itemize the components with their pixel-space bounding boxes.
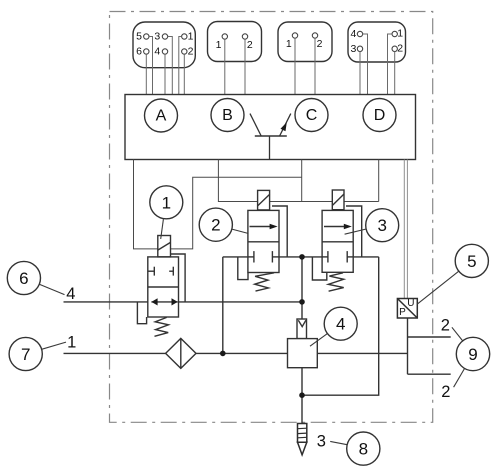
svg-text:2: 2 xyxy=(441,316,450,334)
svg-text:2: 2 xyxy=(317,38,323,50)
svg-text:1: 1 xyxy=(67,334,76,352)
svg-text:1: 1 xyxy=(162,193,171,212)
svg-text:3: 3 xyxy=(350,43,356,55)
svg-text:3: 3 xyxy=(377,216,386,235)
svg-text:8: 8 xyxy=(359,440,368,459)
svg-text:5: 5 xyxy=(467,252,476,271)
svg-text:6: 6 xyxy=(19,269,28,288)
svg-text:2: 2 xyxy=(397,42,403,54)
svg-text:1: 1 xyxy=(286,38,292,50)
svg-text:C: C xyxy=(306,107,318,124)
svg-text:9: 9 xyxy=(468,345,477,364)
svg-text:3: 3 xyxy=(317,433,326,451)
svg-text:2: 2 xyxy=(247,39,253,51)
svg-text:2: 2 xyxy=(211,216,220,235)
svg-text:P: P xyxy=(399,307,406,318)
svg-text:3: 3 xyxy=(154,31,160,43)
svg-text:D: D xyxy=(374,107,386,124)
svg-text:6: 6 xyxy=(136,46,142,58)
svg-text:U: U xyxy=(407,298,414,309)
svg-text:4: 4 xyxy=(154,46,160,58)
svg-text:7: 7 xyxy=(21,345,30,364)
svg-text:4: 4 xyxy=(336,315,345,334)
svg-text:1: 1 xyxy=(397,28,403,40)
svg-text:1: 1 xyxy=(216,39,222,51)
svg-text:A: A xyxy=(156,108,167,125)
svg-text:4: 4 xyxy=(66,285,75,303)
svg-text:5: 5 xyxy=(136,31,142,43)
svg-text:2: 2 xyxy=(441,383,450,401)
svg-text:4: 4 xyxy=(350,28,356,40)
svg-text:B: B xyxy=(222,107,233,124)
svg-text:2: 2 xyxy=(188,46,194,58)
svg-text:1: 1 xyxy=(188,31,194,43)
